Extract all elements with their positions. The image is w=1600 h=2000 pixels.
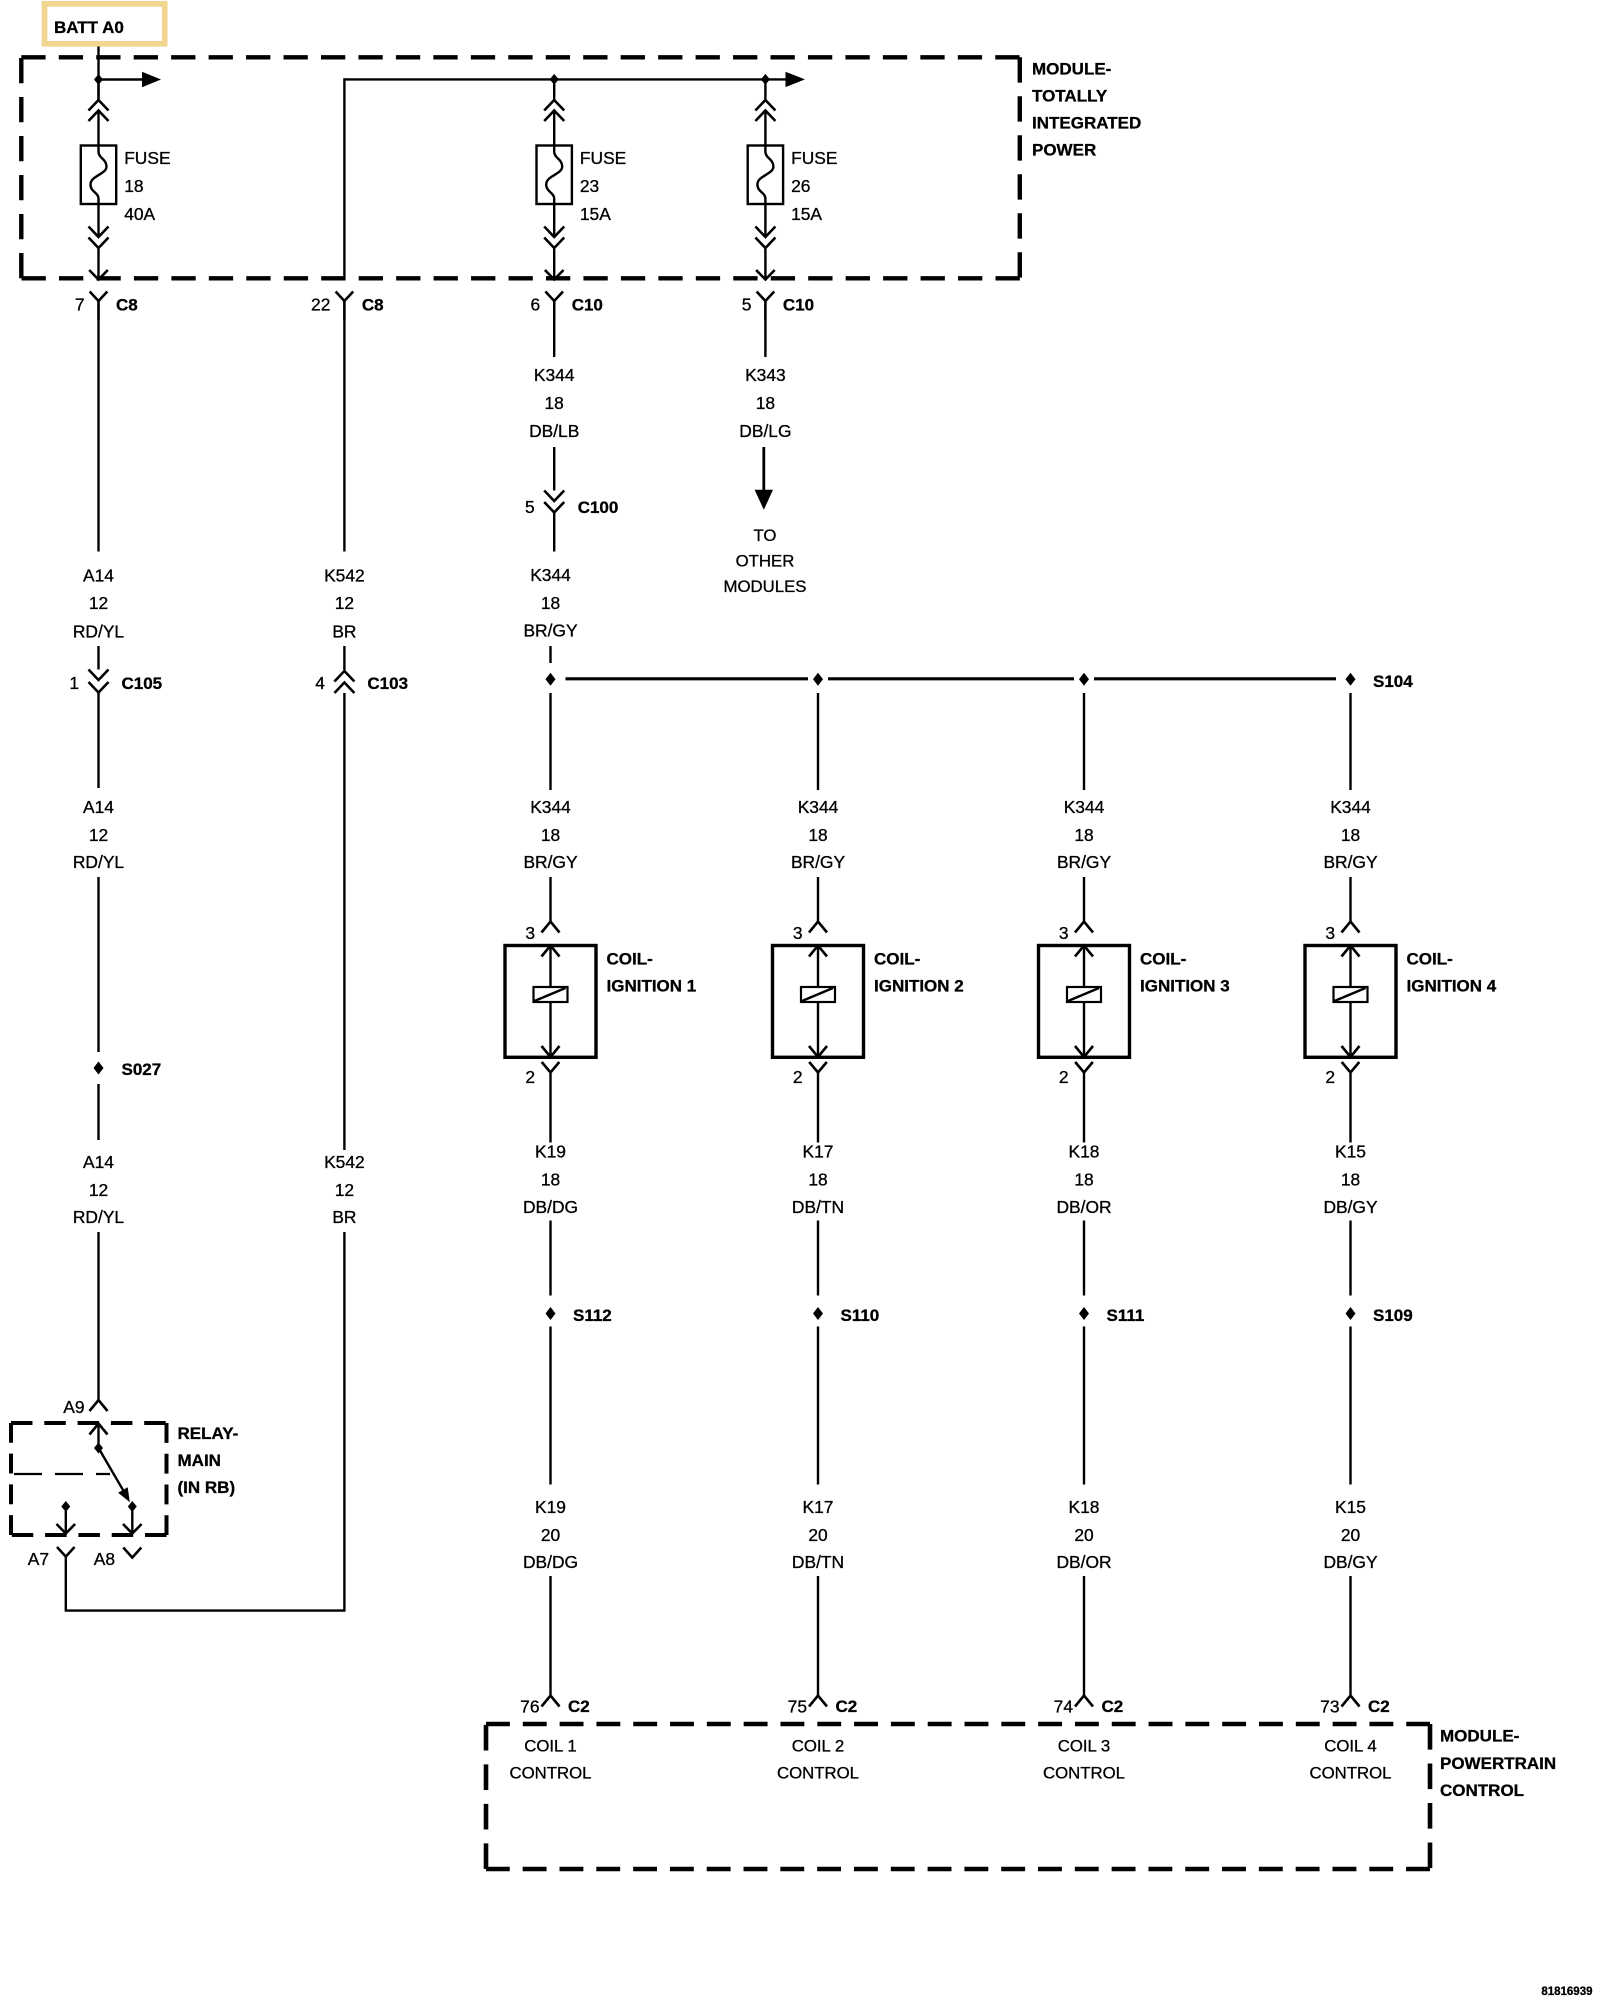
svg-text:12: 12 (335, 593, 354, 613)
relay output wire to pin A7 (57, 1511, 76, 1534)
wire into splice S104 (549, 646, 551, 663)
coil 4 control pin label (1309, 1737, 1391, 1783)
svg-text:A8: A8 (94, 1549, 115, 1569)
svg-text:DB/TN: DB/TN (792, 1552, 844, 1572)
svg-text:BR/GY: BR/GY (1323, 852, 1378, 872)
svg-text:DB/OR: DB/OR (1056, 1197, 1111, 1217)
svg-text:K344: K344 (1064, 797, 1105, 817)
svg-text:C100: C100 (578, 498, 619, 517)
svg-text:20: 20 (1074, 1525, 1093, 1545)
svg-text:18: 18 (541, 1170, 560, 1190)
connector C100 pin 5 (525, 491, 618, 518)
wire leaving TIPM below fuse 23 (545, 248, 564, 280)
svg-text:75: 75 (788, 1697, 807, 1717)
wire label K19 18 DB/DG (523, 1142, 578, 1218)
svg-text:15A: 15A (791, 204, 822, 224)
relay switch arm (99, 1448, 130, 1502)
svg-text:12: 12 (335, 1180, 354, 1200)
svg-text:3: 3 (525, 923, 535, 943)
svg-text:FUSE: FUSE (580, 148, 626, 168)
svg-text:DB/LG: DB/LG (739, 421, 791, 441)
coil-ignition 3 label (1140, 950, 1230, 996)
wire S111 to K18 label (1083, 1327, 1085, 1485)
bus wire across TIPM (344, 78, 786, 80)
splice bus S104 (566, 677, 1337, 680)
svg-text:DB/TN: DB/TN (792, 1197, 844, 1217)
coil-ignition 2 label (874, 950, 964, 996)
svg-text:C103: C103 (367, 674, 408, 693)
wire coil 1 pin 2 to K19 label (549, 1073, 551, 1143)
wire to splice S110 (817, 1221, 819, 1296)
svg-text:20: 20 (541, 1525, 560, 1545)
svg-text:COIL-: COIL- (1407, 950, 1453, 969)
connector C103 pin 4 (315, 671, 408, 693)
wire C100 to K344 label (553, 513, 555, 552)
svg-text:TOTALLY: TOTALLY (1032, 87, 1108, 106)
fuse 18 40A (81, 146, 171, 225)
wire relay A7 down and across to K542 (65, 1576, 346, 1611)
fuse 23 15A (537, 146, 627, 225)
wire C103 to K542 label (343, 693, 345, 1150)
svg-text:MODULES: MODULES (724, 577, 807, 596)
svg-text:C2: C2 (836, 1697, 858, 1716)
svg-text:A7: A7 (28, 1549, 49, 1569)
svg-text:K542: K542 (324, 1152, 365, 1172)
coil-ignition 4 label (1407, 950, 1497, 996)
wire label K344 18 BR/GY (coil 1 branch) (523, 797, 578, 872)
wire S104 to K344 label (coil 3 branch) (1083, 693, 1085, 790)
svg-text:2: 2 (1059, 1067, 1069, 1087)
svg-text:A9: A9 (63, 1397, 84, 1417)
svg-text:COIL 1: COIL 1 (524, 1737, 577, 1756)
wire label K344 18 BR/GY (coil 4 branch) (1323, 797, 1378, 872)
svg-text:K344: K344 (798, 797, 839, 817)
wire S104 to K344 label (coil 1 branch) (549, 693, 551, 790)
svg-text:18: 18 (541, 593, 560, 613)
svg-text:A14: A14 (83, 566, 114, 586)
connector C8 pin 22 (311, 292, 384, 321)
svg-text:18: 18 (756, 393, 775, 413)
wire label K344 18 BR/GY (coil 3 branch) (1057, 797, 1112, 872)
svg-text:18: 18 (1341, 825, 1360, 845)
to other modules label (724, 526, 807, 596)
svg-text:1: 1 (69, 673, 79, 693)
fuse 26 15A (748, 146, 838, 225)
svg-text:POWER: POWER (1032, 141, 1096, 160)
connector C10 pin 6 (531, 292, 603, 321)
splice S112 (546, 1306, 612, 1325)
svg-text:K19: K19 (535, 1497, 566, 1517)
svg-text:COIL-: COIL- (1140, 950, 1186, 969)
svg-text:K17: K17 (803, 1497, 834, 1517)
svg-text:K344: K344 (530, 797, 571, 817)
connector C2 pin 74 (1054, 1696, 1124, 1717)
svg-text:73: 73 (1320, 1697, 1339, 1717)
wire to PCM connector C2 pin 73 (1349, 1576, 1351, 1696)
svg-text:DB/LB: DB/LB (529, 421, 579, 441)
wire S109 to K15 label (1349, 1327, 1351, 1485)
svg-text:18: 18 (541, 825, 560, 845)
connector C2 pin 76 (520, 1696, 590, 1717)
svg-text:3: 3 (1059, 923, 1069, 943)
svg-text:OTHER: OTHER (736, 552, 795, 571)
wire feed to fuse 23 (553, 79, 555, 100)
svg-text:18: 18 (545, 393, 564, 413)
coil-ignition 2 (773, 946, 864, 1058)
wire label K18 20 DB/OR (1056, 1497, 1111, 1572)
wire label K542 12 BR (lower) (324, 1152, 365, 1227)
relay coil divider (dashed) (14, 1473, 110, 1475)
coil 4 pin 3 (1325, 922, 1359, 944)
svg-text:IGNITION 3: IGNITION 3 (1140, 977, 1230, 996)
relay contact node A7 side (61, 1501, 70, 1512)
wire to coil 3 pin 3 (1083, 877, 1085, 922)
wire C10 pin5 to K343 label (764, 301, 766, 357)
splice S104 label (1373, 672, 1413, 691)
svg-text:18: 18 (1074, 825, 1093, 845)
svg-text:C2: C2 (1368, 1697, 1390, 1716)
svg-text:7: 7 (75, 295, 85, 315)
wire below fuse 23 (553, 204, 555, 237)
wire label K18 18 DB/OR (1056, 1142, 1111, 1218)
svg-text:S111: S111 (1107, 1306, 1145, 1325)
wire leaving TIPM below fuse 18 (89, 248, 108, 280)
svg-text:BR/GY: BR/GY (791, 852, 846, 872)
svg-text:12: 12 (89, 825, 108, 845)
svg-text:MODULE-: MODULE- (1440, 1727, 1519, 1746)
wire label K343 18 DB/LG (739, 365, 791, 441)
relay-main label (178, 1424, 239, 1497)
svg-text:40A: 40A (124, 204, 155, 224)
svg-text:18: 18 (1341, 1170, 1360, 1190)
svg-text:INTEGRATED: INTEGRATED (1032, 114, 1141, 133)
svg-text:A14: A14 (83, 797, 114, 817)
wire to connector C105 (97, 646, 99, 670)
wire label K344 18 DB/LB (529, 365, 579, 441)
svg-text:2: 2 (793, 1067, 803, 1087)
svg-text:26: 26 (791, 176, 810, 196)
module-totally integrated power box (21, 57, 1020, 278)
svg-text:3: 3 (793, 923, 803, 943)
coil 2 pin 2 (793, 1062, 827, 1087)
wire into fuse 26 (764, 111, 766, 146)
svg-text:CONTROL: CONTROL (1440, 1781, 1524, 1800)
svg-text:12: 12 (89, 1180, 108, 1200)
svg-text:BR: BR (332, 1207, 356, 1227)
svg-text:K344: K344 (1330, 797, 1371, 817)
coil 2 pin 3 (793, 922, 827, 944)
feed arrow to other circuits (left) (99, 72, 162, 87)
svg-text:IGNITION 4: IGNITION 4 (1407, 977, 1497, 996)
pass-through chevrons above fuse 26 (755, 100, 775, 121)
wire label K344 18 BR/GY (coil 2 branch) (791, 797, 846, 872)
svg-text:C10: C10 (572, 296, 603, 315)
wire to splice S109 (1349, 1221, 1351, 1296)
svg-text:C8: C8 (116, 296, 138, 315)
wire below fuse 18 (97, 204, 99, 237)
wire to coil 2 pin 3 (817, 877, 819, 922)
wire label K19 20 DB/DG (523, 1497, 578, 1572)
svg-text:81816939: 81816939 (1541, 1986, 1592, 1998)
wire S027 to A14 label (97, 1084, 99, 1140)
wire coil 4 pin 2 to K15 label (1349, 1073, 1351, 1143)
svg-text:C2: C2 (568, 1697, 590, 1716)
wire label K15 20 DB/GY (1323, 1497, 1378, 1572)
svg-text:BR/GY: BR/GY (1057, 852, 1112, 872)
svg-text:S110: S110 (841, 1306, 880, 1325)
svg-text:6: 6 (531, 295, 541, 315)
svg-text:4: 4 (315, 673, 325, 693)
splice node S104 branch 3 (1079, 673, 1089, 686)
coil 3 control pin label (1043, 1737, 1125, 1783)
splice S111 (1079, 1306, 1144, 1325)
svg-text:76: 76 (520, 1697, 539, 1717)
module-powertrain control box (486, 1724, 1430, 1869)
wire label K15 18 DB/GY (1323, 1142, 1378, 1218)
pass-through chevrons below fuse 18 (89, 227, 109, 249)
svg-text:K19: K19 (535, 1142, 566, 1162)
svg-text:12: 12 (89, 593, 108, 613)
svg-text:K15: K15 (1335, 1497, 1366, 1517)
svg-text:CONTROL: CONTROL (777, 1764, 859, 1783)
wire label K17 20 DB/TN (792, 1497, 844, 1572)
svg-text:C10: C10 (783, 296, 814, 315)
svg-text:22: 22 (311, 295, 330, 315)
wire into fuse 18 (97, 111, 99, 146)
svg-text:BATT A0: BATT A0 (54, 18, 124, 37)
wire C8 pin22 to K542 label (343, 301, 345, 552)
coil-ignition 4 (1305, 946, 1396, 1058)
wire to relay pin A9 (97, 1232, 99, 1400)
svg-text:18: 18 (124, 176, 143, 196)
svg-text:FUSE: FUSE (124, 148, 170, 168)
pass-through chevrons below fuse 23 (544, 227, 564, 249)
wire label A14 12 RD/YL (upper) (73, 566, 125, 642)
svg-text:CONTROL: CONTROL (1043, 1764, 1125, 1783)
wire to PCM connector C2 pin 75 (817, 1576, 819, 1696)
svg-text:15A: 15A (580, 204, 611, 224)
wire leaving TIPM below fuse 26 (756, 248, 775, 280)
wire feed to fuse 18 (97, 79, 99, 100)
splice node S104 branch 4 (1346, 673, 1356, 686)
connector C2 pin 75 (788, 1696, 858, 1717)
relay common node (94, 1443, 103, 1454)
module-powertrain control label (1440, 1727, 1556, 1801)
svg-text:RD/YL: RD/YL (73, 622, 125, 642)
svg-text:S027: S027 (122, 1060, 162, 1079)
wire S110 to K17 label (817, 1327, 819, 1485)
svg-text:K18: K18 (1069, 1497, 1100, 1517)
wire to splice S112 (549, 1221, 551, 1296)
wire S112 to K19 label (549, 1327, 551, 1485)
svg-text:K343: K343 (745, 365, 786, 385)
coil 1 control pin label (509, 1737, 591, 1783)
svg-text:POWERTRAIN: POWERTRAIN (1440, 1754, 1556, 1773)
svg-text:2: 2 (525, 1067, 535, 1087)
wire K542 down to relay feed corner (343, 1232, 345, 1611)
wire to PCM connector C2 pin 74 (1083, 1576, 1085, 1696)
node at fuse 23 feed (550, 74, 559, 85)
svg-text:23: 23 (580, 176, 599, 196)
svg-text:COIL 3: COIL 3 (1058, 1737, 1111, 1756)
svg-text:A14: A14 (83, 1152, 114, 1172)
splice node S104 branch 1 (546, 673, 556, 686)
svg-text:RD/YL: RD/YL (73, 852, 125, 872)
wire label K344 18 BR/GY (above splice bus) (523, 565, 578, 641)
connector C2 pin 73 (1320, 1696, 1390, 1717)
splice S110 (813, 1306, 879, 1325)
node at fuse 26 feed (761, 74, 770, 85)
pass-through chevrons below fuse 26 (755, 227, 775, 249)
svg-text:TO: TO (753, 526, 776, 545)
coil-ignition 1 label (607, 950, 697, 996)
wire label A14 12 RD/YL (middle) (73, 797, 125, 872)
svg-text:74: 74 (1054, 1697, 1074, 1717)
relay output wire to pin A8 (123, 1508, 142, 1534)
relay-main box (in RB) (11, 1423, 167, 1535)
coil 2 control pin label (777, 1737, 859, 1783)
svg-text:K344: K344 (534, 365, 575, 385)
feed arrow to other circuits (right) (786, 72, 806, 87)
svg-text:18: 18 (808, 825, 827, 845)
coil-ignition 1 (505, 946, 596, 1058)
wire from BATT A0 into TIPM (97, 47, 99, 101)
wire to splice S027 (97, 877, 99, 1052)
wire C10 pin6 to K344 label (553, 301, 555, 357)
svg-text:COIL 2: COIL 2 (792, 1737, 845, 1756)
svg-text:DB/OR: DB/OR (1056, 1552, 1111, 1572)
relay pin A9 (63, 1397, 107, 1417)
svg-text:FUSE: FUSE (791, 148, 837, 168)
wire S104 to K344 label (coil 2 branch) (817, 693, 819, 790)
svg-text:5: 5 (525, 497, 535, 517)
module-totally integrated power label (1032, 60, 1141, 160)
svg-text:IGNITION 2: IGNITION 2 (874, 977, 964, 996)
wire label A14 12 RD/YL (lower) (73, 1152, 125, 1227)
svg-text:2: 2 (1325, 1067, 1335, 1087)
svg-text:COIL-: COIL- (607, 950, 653, 969)
svg-text:18: 18 (1074, 1170, 1093, 1190)
svg-text:K15: K15 (1335, 1142, 1366, 1162)
wire to connector C100 (553, 447, 555, 491)
wire to connector C103 (343, 646, 345, 670)
svg-text:(IN RB): (IN RB) (178, 1478, 236, 1497)
svg-text:C8: C8 (362, 296, 384, 315)
coil-ignition 3 (1039, 946, 1130, 1058)
relay pin A7 (28, 1547, 75, 1576)
battery feed label BATT A0 (45, 4, 165, 44)
splice S027 (94, 1060, 162, 1079)
svg-text:5: 5 (742, 295, 752, 315)
coil 3 pin 2 (1059, 1062, 1093, 1087)
svg-text:DB/GY: DB/GY (1323, 1552, 1378, 1572)
coil 1 pin 3 (525, 922, 559, 944)
wire coil 2 pin 2 to K17 label (817, 1073, 819, 1143)
svg-text:DB/DG: DB/DG (523, 1197, 578, 1217)
svg-text:BR/GY: BR/GY (523, 621, 578, 641)
svg-text:COIL 4: COIL 4 (1324, 1737, 1377, 1756)
svg-text:RD/YL: RD/YL (73, 1207, 125, 1227)
svg-text:S104: S104 (1373, 672, 1413, 691)
wire to splice S111 (1083, 1221, 1085, 1296)
wire S104 to K344 label (coil 4 branch) (1349, 693, 1351, 790)
svg-text:K542: K542 (324, 566, 365, 586)
svg-text:20: 20 (808, 1525, 827, 1545)
coil 3 pin 3 (1059, 922, 1093, 944)
wire to coil 1 pin 3 (549, 877, 551, 922)
svg-text:20: 20 (1341, 1525, 1360, 1545)
svg-text:S112: S112 (573, 1306, 612, 1325)
svg-text:MODULE-: MODULE- (1032, 60, 1111, 79)
connector C10 pin 5 (742, 292, 814, 321)
pass-through chevrons above fuse 23 (544, 100, 564, 121)
coil 1 pin 2 (525, 1062, 559, 1087)
wire below fuse 26 (764, 204, 766, 237)
svg-text:C2: C2 (1102, 1697, 1124, 1716)
wire drop to connector C8 pin 22 (343, 78, 345, 279)
wire coil 3 pin 2 to K18 label (1083, 1073, 1085, 1143)
svg-text:18: 18 (808, 1170, 827, 1190)
svg-text:K344: K344 (530, 565, 571, 585)
svg-text:COIL-: COIL- (874, 950, 920, 969)
sheet number 81816939 (1541, 1986, 1592, 1998)
svg-text:RELAY-: RELAY- (178, 1424, 239, 1443)
wire to PCM connector C2 pin 76 (549, 1576, 551, 1696)
arrow to other modules (755, 447, 773, 510)
relay contact node A8 side (128, 1501, 137, 1512)
svg-text:IGNITION 1: IGNITION 1 (607, 977, 697, 996)
relay common terminal arrow (90, 1424, 108, 1449)
wire label K542 12 BR (upper) (324, 566, 365, 642)
svg-text:C105: C105 (122, 674, 163, 693)
svg-text:BR: BR (332, 622, 356, 642)
relay pin A8 (94, 1548, 142, 1570)
pass-through chevrons above fuse 18 (89, 100, 109, 121)
wire feed to fuse 26 (764, 79, 766, 100)
svg-text:3: 3 (1325, 923, 1335, 943)
svg-text:DB/DG: DB/DG (523, 1552, 578, 1572)
connector C8 pin 7 (75, 292, 138, 321)
node at fuse 18 feed (94, 74, 103, 85)
coil 4 pin 2 (1325, 1062, 1359, 1087)
wire C8 pin7 to A14 label (97, 301, 99, 552)
wire to coil 4 pin 3 (1349, 877, 1351, 922)
svg-text:K17: K17 (803, 1142, 834, 1162)
svg-text:CONTROL: CONTROL (509, 1764, 591, 1783)
svg-text:MAIN: MAIN (178, 1451, 221, 1470)
svg-text:BR/GY: BR/GY (523, 852, 578, 872)
wire into fuse 23 (553, 111, 555, 146)
splice S109 (1346, 1306, 1413, 1325)
svg-text:K18: K18 (1069, 1142, 1100, 1162)
svg-text:S109: S109 (1373, 1306, 1413, 1325)
connector C105 pin 1 (69, 670, 162, 694)
wire label K17 18 DB/TN (792, 1142, 844, 1218)
splice node S104 branch 2 (813, 673, 823, 686)
svg-text:CONTROL: CONTROL (1309, 1764, 1391, 1783)
svg-text:DB/GY: DB/GY (1323, 1197, 1378, 1217)
wire C105 to A14 label (97, 693, 99, 789)
